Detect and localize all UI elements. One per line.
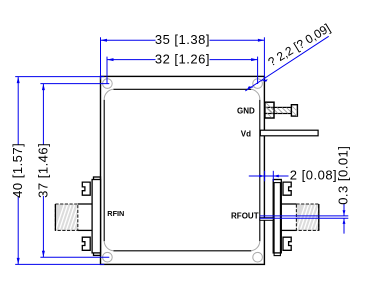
svg-text:2 [0.08]: 2 [0.08] (290, 168, 337, 183)
right connector flange (273, 180, 281, 253)
left connector neck bottom line (78, 229, 92, 231)
dim 37 line (42, 84, 44, 145)
dim 40 extension lines (15, 76, 104, 78)
hole bottom-right (253, 252, 263, 262)
body inner outline top (114, 88, 252, 90)
right connector top tab (283, 182, 291, 195)
inner corner arc TL (104, 89, 113, 99)
RFOUT pin (260, 218, 273, 221)
left connector bottom tab (82, 237, 90, 250)
svg-text:0.3 [0.01]: 0.3 [0.01] (335, 146, 350, 205)
left connector backing plate (94, 177, 101, 255)
dim 32 line (107, 59, 156, 61)
svg-text:32 [1.26]: 32 [1.26] (155, 51, 210, 66)
right connector bottom tab (283, 237, 291, 250)
hole bottom-left (103, 252, 113, 262)
svg-text:RFOUT: RFOUT (231, 212, 259, 221)
dim 35 extension lines (100, 37, 102, 79)
left connector flange (92, 180, 100, 253)
Vd pin (260, 130, 318, 136)
dim 2 extension lines (264, 171, 266, 182)
inner corner arc TR (251, 89, 260, 99)
dim 0.3 line (343, 204, 345, 216)
body inner outline right (259, 100, 261, 242)
dim 2 line (249, 175, 289, 177)
GND pin end cap (291, 105, 297, 116)
right connector neck bottom line (281, 229, 296, 231)
left connector threaded barrel (55, 204, 77, 230)
body inner outline bottom (114, 250, 252, 252)
right connector backing plate (274, 183, 280, 256)
dim 40 line (17, 77, 19, 145)
body inner outline left (103, 100, 105, 242)
svg-text:RFIN: RFIN (107, 209, 124, 218)
centerline lower (260, 217, 349, 219)
svg-text:37 [1.46]: 37 [1.46] (35, 143, 50, 198)
dia 2.2 leader line (245, 36, 328, 91)
centerline upper (260, 215, 349, 217)
svg-text:40 [1.57]: 40 [1.57] (10, 143, 25, 198)
dim 37 extension lines (40, 83, 109, 85)
GND pin shaft (265, 107, 292, 113)
dim 32 extension lines (106, 57, 108, 84)
left connector neck top line (78, 203, 92, 205)
hole top-left (103, 79, 113, 89)
dim 35 line (101, 39, 156, 41)
svg-text:Vd: Vd (241, 129, 251, 138)
right connector neck top line (281, 203, 296, 205)
body outer rect (101, 76, 265, 264)
hole top-right (253, 79, 263, 89)
left connector top tab (82, 182, 90, 195)
svg-text:GND: GND (237, 107, 255, 116)
svg-text:35 [1.38]: 35 [1.38] (155, 32, 210, 47)
right connector threaded barrel (296, 204, 318, 230)
inner corner arc BL (104, 241, 113, 251)
inner corner arc BR (251, 241, 259, 251)
GND feedthrough block (265, 102, 274, 118)
